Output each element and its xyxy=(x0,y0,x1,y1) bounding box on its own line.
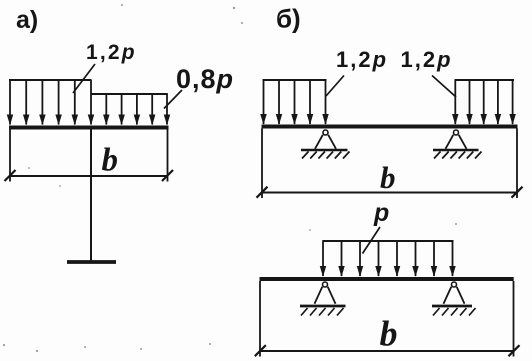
left extension line (beam b1 dimension) xyxy=(261,129,263,199)
right support ground line (beam b2) xyxy=(432,305,472,308)
left support ground hatching (beam b1) xyxy=(302,152,350,159)
right pin support triangle legs (beam b2) xyxy=(444,287,465,304)
svg-text:b: b xyxy=(380,314,398,354)
distributed load 0,8p top line (beam a) xyxy=(91,93,168,95)
dimension line b (beam b1) xyxy=(261,192,518,194)
right distributed load top line (beam b1) xyxy=(455,79,515,81)
left support ground line (beam b2) xyxy=(300,305,346,308)
svg-text:b: b xyxy=(102,143,119,179)
left extension line (beam b2 dimension) xyxy=(259,281,261,357)
dimension line b (beam b2) xyxy=(259,350,514,352)
beam b2 xyxy=(260,277,514,281)
svg-text:1,2p: 1,2p xyxy=(401,47,453,72)
right extension line (beam b1 dimension) xyxy=(516,129,518,199)
left pin support circle (beam b2) xyxy=(323,282,328,287)
right support ground line (beam b1) xyxy=(433,149,479,152)
column under beam a xyxy=(90,129,92,262)
left distributed load arrows (beam b1) xyxy=(264,80,326,124)
leader line from left 1,2p to left load (beam b1) xyxy=(326,76,344,97)
svg-text:p: p xyxy=(373,199,389,227)
right extension line (beam a dimension) xyxy=(167,129,169,182)
left support ground line (beam b1) xyxy=(301,149,348,152)
right distributed load arrows (beam b1) xyxy=(455,80,512,124)
left pin support triangle legs (beam b2) xyxy=(315,287,336,304)
right support ground hatching (beam b1) xyxy=(434,152,482,159)
distributed load p top line (beam b2) xyxy=(323,240,454,242)
svg-text:б): б) xyxy=(276,4,301,34)
svg-text:b: b xyxy=(380,160,396,195)
dimension tick right (beam a) xyxy=(162,170,173,181)
distributed load 1,2p top line (beam a) xyxy=(9,79,92,81)
left extension line (beam a dimension) xyxy=(9,129,11,182)
dimension tick left (beam b2) xyxy=(255,345,266,356)
right pin support triangle legs (beam b1) xyxy=(446,135,467,149)
left distributed load top line (beam b1) xyxy=(263,79,327,81)
svg-text:1,2p: 1,2p xyxy=(86,41,137,64)
distributed load 0,8p arrows (beam a) xyxy=(106,94,167,125)
svg-text:1,2p: 1,2p xyxy=(336,47,388,72)
column footing bar (beam a) xyxy=(67,260,116,264)
left pin support circle (beam b1) xyxy=(323,130,328,135)
beam a xyxy=(9,126,169,130)
dimension line b (beam a) xyxy=(9,175,168,177)
right support ground hatching (beam b2) xyxy=(433,308,476,316)
leader line from 1,2p to left load (beam a) xyxy=(73,64,95,93)
left support ground hatching (beam b2) xyxy=(301,308,344,316)
right extension line (beam b2 dimension) xyxy=(513,281,515,357)
leader line from right 1,2p to right load (beam b1) xyxy=(432,76,456,98)
left pin support triangle legs (beam b1) xyxy=(315,135,336,149)
dimension tick left (beam b1) xyxy=(257,187,268,198)
dimension tick left (beam a) xyxy=(5,170,16,181)
dimension tick right (beam b1) xyxy=(512,187,523,198)
svg-text:а): а) xyxy=(16,6,38,34)
right pin support circle (beam b1) xyxy=(454,130,459,135)
leader line from 0,8p to right load (beam a) xyxy=(164,90,182,109)
dimension tick right (beam b2) xyxy=(509,345,520,356)
svg-text:0,8p: 0,8p xyxy=(176,64,234,94)
distributed load 1,2p arrows (beam a) xyxy=(10,80,91,125)
beam b1 xyxy=(262,125,518,129)
leader line from p to load (beam b2) xyxy=(363,227,381,254)
distributed load p arrows (beam b2) xyxy=(323,241,453,277)
right pin support circle (beam b2) xyxy=(452,282,457,287)
